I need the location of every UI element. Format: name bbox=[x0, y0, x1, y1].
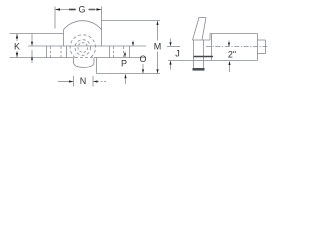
svg-text:O: O bbox=[139, 54, 146, 64]
dashed bore circle middle bbox=[75, 40, 91, 56]
lever top bbox=[199, 17, 206, 19]
P top arrow line bbox=[124, 52, 126, 58]
G left arrow bbox=[55, 8, 60, 10]
J bottom arrow line bbox=[170, 61, 172, 70]
tick dim down arrow bbox=[31, 42, 33, 46]
dome right vertical / G right extension bbox=[101, 7, 103, 47]
M top arrow bbox=[156, 21, 158, 25]
plate right vertical bbox=[203, 40, 205, 68]
plate top line bbox=[28, 45, 146, 47]
N extension right bbox=[92, 76, 94, 87]
P down arrow bbox=[124, 53, 126, 57]
G dimension line bbox=[55, 9, 76, 11]
O bottom down arrow bbox=[142, 69, 144, 73]
lower right step vertical bbox=[96, 58, 98, 74]
G left extension bbox=[54, 7, 56, 29]
bottom block bbox=[74, 58, 95, 68]
plate mid line bbox=[194, 56, 214, 58]
centerline bbox=[206, 46, 268, 48]
svg-text:N: N bbox=[80, 76, 87, 86]
dome left vertical bbox=[63, 30, 65, 47]
svg-text:M: M bbox=[154, 42, 162, 52]
2in bottom arrow line bbox=[229, 62, 231, 73]
K dimension line bbox=[16, 34, 18, 42]
M top extension line bbox=[102, 20, 161, 22]
cylinder right vertical bbox=[257, 34, 259, 61]
N tail dashes bbox=[101, 81, 108, 83]
K bottom arrow bbox=[16, 53, 18, 58]
plate bottom dashed behind block bbox=[75, 57, 93, 59]
foot block dark bbox=[193, 68, 205, 71]
left lug bbox=[46, 46, 48, 58]
G right arrow bbox=[97, 8, 102, 10]
lower right bottom line bbox=[97, 73, 161, 75]
tick dim up arrow bbox=[31, 56, 33, 59]
step vertical bbox=[209, 34, 211, 41]
step horizontal bbox=[193, 39, 211, 41]
cylinder left vertical bbox=[211, 34, 213, 61]
K top arrow bbox=[16, 34, 18, 39]
N left arrow bbox=[93, 80, 97, 82]
G tick text right bbox=[89, 9, 95, 11]
cylinder bottom bbox=[192, 60, 258, 62]
plate bottom right bbox=[94, 57, 146, 59]
right lug bbox=[109, 46, 111, 58]
right lug hole dashes bbox=[113, 47, 115, 58]
M dimension line upper bbox=[157, 21, 159, 41]
lever right slant bbox=[202, 18, 206, 41]
O bottom arrow line bbox=[142, 64, 144, 73]
O top arrow line bbox=[132, 41, 134, 46]
svg-text:G: G bbox=[78, 5, 85, 15]
left lug hole dashes bbox=[50, 47, 52, 58]
O small down arrow bbox=[132, 42, 134, 46]
cylinder top bbox=[210, 33, 258, 35]
unlabeled tick dimension lower bbox=[31, 50, 33, 63]
M dimension line lower bbox=[157, 52, 159, 74]
N dimension line left bbox=[58, 81, 73, 83]
N extension left bbox=[73, 76, 75, 87]
unlabeled tick dimension upper bbox=[31, 34, 33, 46]
dashed bore circle outer (clipped below plate bottom) bbox=[70, 35, 95, 58]
P bottom arrow line bbox=[125, 75, 127, 85]
J top arrow line bbox=[170, 39, 172, 46]
2in down arrow bbox=[228, 43, 230, 47]
svg-text:2": 2" bbox=[228, 50, 236, 60]
arm bottom line left bbox=[10, 57, 74, 59]
stub bottom bbox=[258, 53, 266, 55]
J bottom extension bbox=[168, 60, 192, 62]
G tick text left bbox=[69, 9, 76, 11]
M bottom arrow bbox=[156, 69, 158, 73]
N dimension tail right bbox=[94, 81, 100, 83]
svg-text:J: J bbox=[175, 49, 180, 59]
svg-text:P: P bbox=[121, 59, 127, 69]
2in up arrow bbox=[228, 61, 230, 65]
N right arrow bbox=[69, 80, 73, 82]
svg-text:K: K bbox=[14, 42, 20, 52]
dashed bore circle inner bbox=[78, 43, 88, 53]
dome arc bbox=[64, 21, 102, 30]
J top extension bbox=[167, 46, 180, 48]
J up arrow bbox=[169, 61, 171, 65]
arm top line bbox=[10, 33, 64, 35]
J down arrow bbox=[169, 42, 171, 46]
lever left slant bbox=[193, 18, 200, 41]
stub right bbox=[265, 40, 267, 54]
2in top arrow line bbox=[228, 41, 230, 47]
stub top bbox=[258, 39, 266, 41]
P up arrow bbox=[124, 74, 126, 78]
plate left vertical bbox=[193, 40, 195, 68]
